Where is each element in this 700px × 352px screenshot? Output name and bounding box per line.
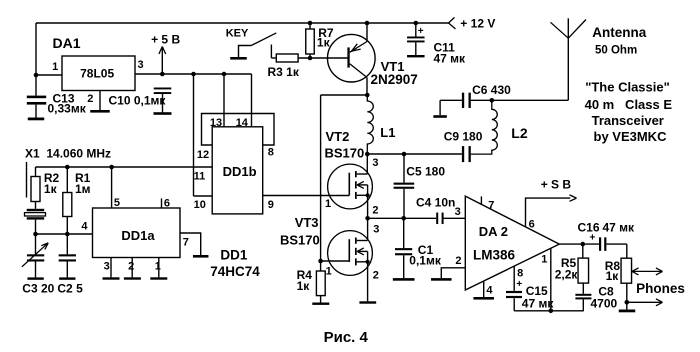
svg-text:11: 11 [194,170,206,182]
svg-text:8: 8 [517,268,523,280]
svg-text:LM386: LM386 [473,248,516,263]
svg-text:BS170: BS170 [325,146,365,161]
svg-text:6: 6 [529,219,535,231]
svg-text:10: 10 [194,199,206,211]
svg-text:4: 4 [81,220,88,232]
svg-text:Рис. 4: Рис. 4 [324,329,369,346]
svg-text:5: 5 [114,197,120,209]
svg-text:3: 3 [104,260,110,272]
svg-text:9: 9 [268,199,274,211]
svg-text:+: + [418,26,424,37]
svg-text:C5 180: C5 180 [406,164,445,178]
svg-text:+ 12 V: + 12 V [460,16,495,30]
svg-text:R3 1к: R3 1к [268,65,300,79]
svg-text:1к: 1к [297,279,311,293]
svg-text:3: 3 [138,59,144,71]
svg-text:DA 2: DA 2 [479,224,508,239]
svg-text:3: 3 [372,157,378,169]
svg-text:50 Ohm: 50 Ohm [595,44,637,56]
svg-text:DD1b: DD1b [223,164,257,179]
svg-text:12: 12 [197,149,209,161]
svg-text:4700: 4700 [591,296,618,310]
svg-text:+: + [516,279,522,290]
svg-text:C4 10n: C4 10n [416,195,455,209]
svg-text:7: 7 [183,236,189,248]
svg-text:1: 1 [155,260,161,272]
svg-text:2N2907: 2N2907 [371,72,418,87]
svg-text:0,33мк: 0,33мк [48,102,87,116]
svg-text:1: 1 [541,253,547,265]
svg-text:1: 1 [52,61,58,73]
svg-text:47 мк: 47 мк [522,296,555,310]
svg-text:C2 5: C2 5 [57,282,83,296]
svg-text:DD1a: DD1a [121,228,155,243]
svg-text:+ 5 В: + 5 В [151,33,180,47]
svg-text:1к: 1к [317,36,331,50]
svg-text:0,1мк: 0,1мк [409,253,442,267]
svg-text:C9 180: C9 180 [444,129,483,143]
svg-text:X1 14.060 MHz: X1 14.060 MHz [25,147,111,161]
svg-text:1м: 1м [75,182,91,196]
svg-text:2: 2 [87,93,93,105]
svg-text:40 m Class E: 40 m Class E [585,97,673,112]
svg-text:"The Classie": "The Classie" [585,80,670,95]
svg-text:47 мк: 47 мк [434,51,467,65]
svg-text:Antenna: Antenna [592,25,646,40]
svg-text:1: 1 [325,198,331,210]
svg-text:1к: 1к [606,269,620,283]
svg-text:1: 1 [326,266,332,278]
svg-text:2: 2 [128,260,134,272]
svg-text:BS170: BS170 [280,232,320,247]
svg-text:C3 20: C3 20 [22,282,54,296]
svg-text:3: 3 [455,206,461,218]
svg-text:L2: L2 [511,125,528,141]
svg-text:6: 6 [164,197,170,209]
svg-text:4: 4 [486,285,493,297]
svg-text:VT3: VT3 [295,215,319,230]
svg-text:+ S B: + S B [541,178,572,192]
svg-text:C10 0,1мк: C10 0,1мк [109,93,167,107]
svg-text:47 мк: 47 мк [603,221,636,235]
svg-text:Transceiver: Transceiver [592,113,664,128]
svg-text:Phones: Phones [636,281,685,296]
svg-text:74HC74: 74HC74 [210,264,260,279]
svg-text:2: 2 [455,255,461,267]
svg-text:13: 13 [210,117,222,129]
svg-text:2: 2 [372,205,378,217]
svg-text:KEY: KEY [226,28,249,40]
svg-text:C6 430: C6 430 [472,83,511,97]
svg-text:C16: C16 [578,221,600,235]
svg-text:DA1: DA1 [53,35,81,51]
svg-text:DD1: DD1 [220,247,247,262]
svg-text:78L05: 78L05 [80,67,114,81]
svg-text:2: 2 [373,270,379,282]
svg-text:3: 3 [373,224,379,236]
svg-text:7: 7 [488,200,494,212]
svg-text:by VE3MKC: by VE3MKC [594,129,668,144]
svg-text:8: 8 [268,147,274,159]
svg-text:14: 14 [236,117,249,129]
svg-text:2,2к: 2,2к [555,267,579,281]
svg-text:L1: L1 [380,125,395,140]
svg-text:1к: 1к [44,182,58,196]
svg-text:VT2: VT2 [326,129,350,144]
